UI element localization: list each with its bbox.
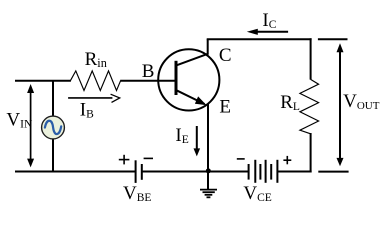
svg-text:B: B	[142, 61, 155, 82]
svg-text:C: C	[219, 45, 232, 66]
svg-text:E: E	[219, 97, 231, 118]
